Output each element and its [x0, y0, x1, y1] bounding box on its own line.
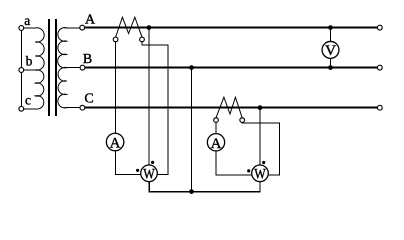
svg-text:b: b: [26, 53, 33, 68]
transformer primary winding bus: [20, 28, 22, 109]
terminal c: [19, 106, 24, 111]
terminal B: [80, 65, 85, 70]
polarity dot W1 left: [136, 169, 139, 172]
wire: line C node down to W2 voltage terminal: [259, 109, 261, 166]
svg-text:V: V: [325, 43, 336, 59]
node on line B (voltage coil common): [189, 65, 194, 70]
jumper terminal right (line A): [140, 37, 145, 42]
node on line B (voltmeter tap): [328, 65, 333, 70]
jumper link zigzag on line A: [116, 17, 142, 37]
wire: common voltage wire up to line B: [191, 69, 193, 192]
secondary tap line C: [65, 107, 81, 109]
wire: wattmeter W2 current coil back to jumper C right terminal: [242, 122, 280, 175]
secondary tap line B: [65, 67, 81, 69]
polarity dot W2 top: [262, 161, 265, 164]
svg-text:C: C: [84, 92, 93, 107]
terminal C: [80, 105, 85, 110]
voltmeter V: [322, 41, 339, 58]
svg-text:A: A: [85, 13, 96, 28]
wire: ammeter A1 to wattmeter W1 current coil: [115, 151, 141, 175]
wire: jumper A left terminal to ammeter A1: [114, 42, 116, 134]
svg-text:W: W: [143, 167, 155, 183]
wire: ammeter A2 to wattmeter W2 current coil: [216, 151, 252, 175]
phase line A: [85, 27, 378, 29]
svg-text:B: B: [83, 52, 92, 67]
right terminal of line A: [377, 25, 382, 30]
polarity dot W1 top: [151, 161, 154, 164]
voltmeter stem top: [330, 29, 332, 42]
wire: line A node down to W1 voltage terminal: [148, 29, 150, 166]
transformer core: [48, 19, 50, 116]
wattmeter W1: [141, 165, 158, 182]
jumper terminal right (line C): [240, 118, 245, 123]
terminal A: [80, 25, 85, 30]
ammeter A2: [207, 134, 224, 151]
jumper link zigzag on line C: [216, 97, 242, 118]
tap line a: [24, 27, 36, 29]
voltmeter stem bottom: [330, 58, 332, 66]
jumper terminal left (line C): [214, 118, 219, 123]
node on line A (voltmeter tap): [328, 25, 333, 30]
wire: wattmeter W1 current coil back to jumper A right terminal: [142, 42, 168, 175]
node on line A (wattmeter W1 voltage tap): [147, 25, 152, 30]
wattmeter W2: [252, 165, 269, 182]
terminal a: [19, 26, 24, 31]
tap line c: [24, 108, 36, 110]
phase line C: [85, 107, 378, 109]
wire: jumper C left terminal to ammeter A2: [215, 122, 217, 133]
right terminal of line C: [377, 105, 382, 110]
jumper terminal left (line A): [113, 37, 118, 42]
ammeter A1: [106, 133, 124, 151]
tap line b: [24, 69, 36, 71]
phase line B: [85, 67, 377, 69]
svg-text:A: A: [211, 136, 222, 152]
terminal b: [19, 68, 24, 73]
svg-text:W: W: [254, 167, 266, 183]
secondary tap line A: [65, 27, 81, 29]
secondary winding coil: [58, 28, 67, 108]
primary winding coil: [35, 28, 44, 109]
node on common voltage wire: [189, 189, 194, 194]
right terminal of line B: [377, 65, 382, 70]
node on line C (wattmeter W2 voltage tap): [258, 105, 263, 110]
polarity dot W2 left: [247, 169, 250, 172]
svg-text:a: a: [24, 13, 30, 28]
svg-text:c: c: [25, 93, 31, 108]
svg-text:A: A: [110, 136, 121, 152]
wire: W1 bottom to common voltage wire: [149, 182, 260, 192]
